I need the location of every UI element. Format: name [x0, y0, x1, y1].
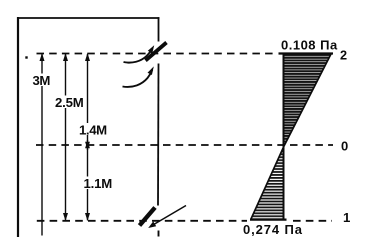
pressure diagram upper hatched triangle	[284, 54, 331, 146]
upper inflow arrow 2	[123, 66, 154, 87]
dimension line 3M	[31, 53, 51, 236]
dimension line 1.4M	[79, 53, 108, 150]
dimension line 2.5M	[54, 53, 86, 221]
level 1 dashed line left part	[37, 220, 247, 222]
stray dot	[25, 56, 27, 58]
pressure diagram lower hatched triangle	[251, 146, 284, 219]
svg-text:0: 0	[341, 138, 348, 153]
room right wall upper segment	[158, 17, 160, 41]
room left wall	[17, 17, 19, 237]
pressure diagram bottom edge	[250, 218, 287, 220]
svg-text:1.4M: 1.4M	[79, 122, 107, 137]
svg-text:3M: 3M	[33, 73, 51, 88]
upper opening slash	[146, 43, 167, 61]
room right wall stub below lower opening	[158, 231, 160, 237]
svg-text:0,274 Па: 0,274 Па	[243, 222, 303, 237]
room ceiling	[17, 17, 159, 19]
svg-text:1: 1	[343, 210, 350, 225]
upper inflow arrow 1	[124, 45, 155, 62]
svg-text:1.1M: 1.1M	[84, 176, 113, 191]
pressure diagram top edge	[279, 52, 334, 54]
pressure diagram sloped boundary	[251, 54, 331, 220]
dimension line 1.1M	[83, 140, 113, 221]
lower outflow arrow	[148, 206, 186, 229]
svg-text:2.5M: 2.5M	[55, 95, 84, 110]
level 2 dashed line	[37, 53, 278, 55]
pressure diagram axis	[283, 54, 285, 221]
svg-text:2: 2	[340, 48, 347, 62]
level 1 dashed line right part	[293, 220, 332, 222]
svg-text:0.108 Па: 0.108 Па	[281, 37, 338, 52]
room right wall main segment	[157, 64, 160, 206]
lower opening slash	[140, 208, 156, 226]
level 0 dashed line	[36, 144, 333, 146]
